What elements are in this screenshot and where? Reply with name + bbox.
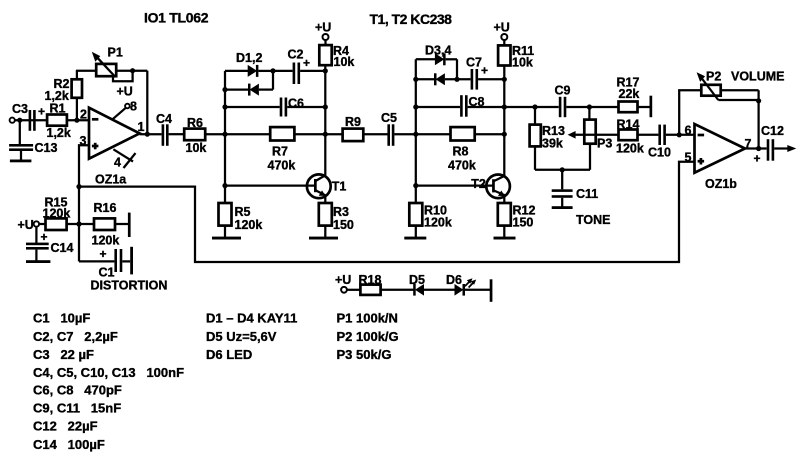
svg-text:C13: C13 (35, 141, 58, 155)
ground R3 (309, 226, 338, 240)
svg-text:+U: +U (335, 273, 351, 287)
svg-text:P3: P3 (597, 137, 612, 151)
svg-text:120k: 120k (424, 215, 452, 229)
svg-text:OZ1a: OZ1a (95, 173, 127, 187)
diode D4 (416, 73, 471, 85)
wire bias junction to C1 (79, 260, 114, 262)
supply +U terminal stage2 (494, 20, 510, 40)
svg-text:DISTORTION: DISTORTION (91, 278, 168, 292)
wire R13 bottom to P3 bottom (535, 169, 590, 171)
resistor R7 470k (225, 127, 325, 172)
stage 1 collector vertical wire (324, 65, 326, 175)
svg-text:2: 2 (80, 108, 87, 122)
svg-text:R3: R3 (333, 205, 349, 219)
wire bias down to R15/R16 junction (78, 187, 80, 262)
svg-text:R8: R8 (453, 145, 469, 159)
svg-text:C1 10µF: C1 10µF (33, 310, 90, 325)
node base1 diode row (222, 87, 227, 92)
svg-text:T2: T2 (471, 177, 486, 191)
svg-text:+U: +U (494, 20, 510, 34)
wire collector2 to C9 row (504, 106, 558, 108)
svg-text:120k: 120k (235, 218, 263, 232)
potentiometer P3 (568, 107, 619, 170)
svg-text:P3 50k/G: P3 50k/G (337, 347, 392, 362)
output arrow (787, 145, 796, 152)
svg-text:C8: C8 (469, 95, 485, 109)
capacitor C10 (648, 125, 671, 160)
svg-text:470k: 470k (448, 159, 476, 173)
svg-text:+: + (100, 247, 107, 261)
wire R18 to D5 (381, 289, 415, 291)
svg-text:C14: C14 (51, 241, 74, 255)
svg-text:R7: R7 (272, 144, 288, 158)
resistor R5 120k (219, 203, 263, 232)
node collector1 main row (323, 132, 328, 137)
capacitor C2 (288, 47, 311, 84)
svg-text:C4: C4 (156, 112, 172, 126)
svg-text:4: 4 (114, 155, 121, 169)
wire diode corner stage1 (272, 71, 274, 90)
capacitor C3 (12, 102, 45, 131)
svg-text:R9: R9 (345, 115, 361, 129)
terminal bar LED row (490, 279, 493, 302)
resistor R12 150 (498, 203, 536, 229)
svg-text:1,2k: 1,2k (45, 89, 69, 103)
stage 2 collector vertical wire (503, 66, 505, 176)
wire pin 3 to bias node (79, 145, 90, 186)
svg-text:C3 22 µF: C3 22 µF (33, 347, 94, 362)
stage 2 base vertical wire (415, 59, 417, 203)
svg-text:10k: 10k (512, 56, 533, 70)
svg-text:C14 100µF: C14 100µF (33, 437, 105, 452)
svg-text:C3: C3 (12, 102, 28, 116)
svg-text:+: + (481, 64, 488, 78)
terminal bar after R16 (128, 213, 131, 237)
resistor R9 (325, 115, 387, 141)
wire C4 to R6 (169, 133, 185, 135)
svg-text:R14: R14 (617, 117, 640, 131)
component list capacitors (33, 310, 184, 452)
svg-text:C4, C5, C10, C13 100nF: C4, C5, C10, C13 100nF (33, 365, 184, 380)
ground R5 (212, 226, 241, 240)
wire +U to R18 (347, 289, 360, 291)
node input junction (17, 118, 22, 123)
node collector2 C7 row (502, 77, 507, 82)
svg-text:D5: D5 (409, 273, 425, 287)
node base2 transistor row (413, 183, 418, 188)
svg-text:C6: C6 (288, 96, 304, 110)
svg-text:C7: C7 (466, 56, 482, 70)
svg-text:39k: 39k (542, 136, 563, 150)
resistor R18 (359, 273, 382, 295)
wire pin 7 to C12 (745, 147, 767, 149)
svg-text:+U: +U (18, 218, 34, 232)
svg-text:+U: +U (315, 20, 331, 34)
wire D6 to terminal bar (465, 289, 490, 291)
component list diodes (206, 310, 297, 362)
node collector2 C8 row (502, 104, 507, 109)
node base1 transistor row (222, 183, 227, 188)
wire P2 down to output node (757, 100, 759, 149)
wire R2 to P1 (76, 70, 96, 72)
svg-text:D1 – D4 KAY11: D1 – D4 KAY11 (206, 310, 297, 325)
input terminal (10, 118, 15, 123)
svg-text:8: 8 (130, 100, 137, 114)
resistor R8 470k (416, 127, 505, 173)
supply +U terminal left (18, 218, 40, 232)
svg-text:R16: R16 (94, 201, 117, 215)
resistor R1 1,2k (47, 102, 71, 140)
diode D2 (225, 84, 273, 96)
ground C14 (26, 260, 50, 263)
node collector1 C6 row (323, 104, 328, 109)
svg-text:TONE: TONE (576, 213, 611, 227)
resistor R14 120k (616, 117, 658, 155)
node D3/D4 join (454, 77, 459, 82)
op-amp OZ1a (80, 108, 145, 187)
transistor T2 (416, 175, 510, 199)
wire C9 to R17 (566, 106, 618, 108)
node R13 top junction (532, 104, 537, 109)
supply +U terminal stage1 (315, 20, 331, 40)
node base2 main row (413, 132, 418, 137)
svg-text:C10: C10 (648, 146, 671, 160)
svg-text:R6: R6 (187, 116, 203, 130)
node base1 C6 row (222, 104, 227, 109)
ground C13 (10, 160, 32, 163)
node OZ1a output (145, 132, 150, 137)
node pin 6 junction (677, 132, 682, 137)
wire R6 to stage1 base node (205, 133, 225, 135)
svg-text:P2 100k/G: P2 100k/G (337, 329, 399, 344)
svg-text:+: + (754, 152, 761, 166)
wire P1 feedback down to output node (146, 71, 148, 135)
node P2 wiper junction (756, 98, 761, 103)
op-amp OZ1b (685, 123, 752, 191)
svg-text:T1, T2 KC238: T1, T2 KC238 (370, 11, 453, 27)
svg-text:C6, C8 470pF: C6, C8 470pF (33, 383, 122, 398)
wire C5 to stage2 base node (394, 133, 415, 135)
svg-text:+: + (303, 56, 310, 70)
node base2 C8 row (413, 104, 418, 109)
transistor T1 (225, 174, 346, 198)
resistor R3 150 (319, 203, 354, 232)
capacitor C9 (555, 84, 571, 118)
resistor R10 120k (409, 203, 452, 229)
ground C11 (552, 206, 573, 209)
wire to C2 (273, 70, 293, 72)
node P1 wiper junction (130, 68, 135, 73)
resistor R2 1,2k (45, 71, 83, 121)
resistor R13 39k (530, 107, 565, 170)
wire T1 emitter to R3 (324, 195, 326, 203)
svg-text:R5: R5 (235, 205, 251, 219)
ground R12 (494, 226, 516, 240)
svg-text:5: 5 (685, 150, 692, 164)
svg-text:D6 LED: D6 LED (206, 347, 252, 362)
node C11 junction (560, 167, 565, 172)
capacitor C1 (99, 247, 123, 279)
svg-text:R18: R18 (359, 273, 382, 287)
svg-text:10k: 10k (334, 55, 355, 69)
svg-text:R1: R1 (50, 102, 66, 116)
svg-text:C12 22µF: C12 22µF (33, 419, 98, 434)
terminal bar after C1 (130, 247, 133, 275)
capacitor C11 (552, 170, 599, 207)
potentiometer P1 (92, 46, 148, 82)
resistor R17 22k (617, 76, 650, 113)
svg-text:+: + (38, 105, 45, 119)
node base1 main (222, 132, 227, 137)
node R1/R2 junction (74, 118, 79, 123)
capacitor C7 (466, 56, 488, 90)
diode D3 (416, 43, 457, 65)
component list potentiometers (337, 310, 399, 362)
op-amp OZ1a pin 4 (113, 149, 135, 169)
wire input to R1 (15, 119, 47, 121)
capacitor C5 (381, 111, 397, 146)
node R15/R16 junction (76, 221, 81, 226)
svg-text:D6: D6 (446, 273, 462, 287)
node P3 top junction (587, 104, 592, 109)
svg-text:6: 6 (685, 123, 692, 137)
svg-text:120k: 120k (92, 233, 120, 247)
svg-text:C5: C5 (381, 111, 397, 125)
node pin 7 output (756, 146, 761, 151)
svg-text:IO1 TL062: IO1 TL062 (144, 10, 209, 26)
svg-text:D3,4: D3,4 (425, 43, 451, 57)
svg-text:C9, C11 15nF: C9, C11 15nF (33, 401, 121, 416)
svg-text:22k: 22k (619, 87, 640, 101)
resistor R15 120k (39, 195, 79, 230)
capacitor C12 (754, 124, 784, 166)
svg-text:P1 100k/N: P1 100k/N (337, 310, 398, 325)
svg-text:D5 Uz=5,6V: D5 Uz=5,6V (206, 329, 277, 344)
svg-text:C9: C9 (555, 84, 571, 98)
svg-text:+U: +U (117, 85, 133, 99)
capacitor C14 (26, 227, 73, 261)
wire C12 to output arrow (774, 147, 789, 149)
wire C10 to pin 6 (666, 134, 695, 136)
svg-text:470k: 470k (268, 158, 296, 172)
diode D1 (225, 51, 273, 77)
stage 1 base vertical wire (224, 71, 226, 203)
capacitor C13 (9, 120, 57, 160)
wire C1 to terminal bar (122, 260, 130, 262)
svg-text:P1: P1 (108, 46, 123, 60)
svg-text:150: 150 (333, 218, 354, 232)
diode D5 zener (409, 273, 425, 296)
svg-text:P2: P2 (706, 69, 721, 83)
svg-text:C1: C1 (99, 265, 115, 279)
wire pin 6 up to P2 (679, 90, 701, 135)
resistor R6 10k (184, 116, 206, 155)
svg-text:C2, C7 2,2µF: C2, C7 2,2µF (33, 329, 118, 344)
wire C7 to collector2 (478, 78, 504, 80)
svg-text:1: 1 (138, 120, 145, 134)
resistor R11 10k (498, 40, 534, 70)
node collector2 main row (502, 132, 507, 137)
terminal bar after R17 (650, 96, 653, 118)
svg-text:120k: 120k (43, 206, 71, 220)
LED D6 (446, 273, 476, 296)
ground R10 (404, 226, 426, 240)
node collector1 C2 row (323, 68, 328, 73)
svg-text:1,2k: 1,2k (47, 126, 71, 140)
svg-text:10k: 10k (186, 141, 207, 155)
capacitor C4 (156, 112, 172, 146)
svg-text:C2: C2 (288, 47, 304, 61)
wire T2 emitter to R12 (503, 195, 505, 203)
potentiometer P2 (697, 69, 785, 100)
svg-text:D1,2: D1,2 (236, 51, 262, 65)
wire D5 to D6 (424, 289, 455, 291)
wire output to C4 (140, 133, 162, 135)
wire bias rail to OZ1b pin 5 (79, 162, 695, 262)
supply +U terminal LED row (335, 273, 351, 293)
node bias junction (76, 184, 81, 189)
capacitor C8 (416, 95, 505, 117)
svg-text:+: + (41, 230, 48, 244)
svg-text:C12: C12 (761, 124, 784, 138)
wire diode corner stage2 (456, 59, 458, 79)
op-amp OZ1a pin 8 (113, 85, 138, 120)
svg-text:T1: T1 (332, 180, 347, 194)
svg-text:150: 150 (513, 215, 534, 229)
svg-text:OZ1b: OZ1b (705, 177, 737, 191)
node D1/D2 join (270, 68, 275, 73)
svg-text:VOLUME: VOLUME (731, 69, 784, 83)
svg-text:120k: 120k (616, 142, 644, 156)
node base2 diode row (413, 77, 418, 82)
wire C2 to collector1 (300, 70, 325, 72)
capacitor C6 (225, 96, 325, 116)
resistor R4 10k (319, 40, 354, 69)
wire R1 to op-amp pin 2 (67, 119, 90, 121)
resistor R16 120k (79, 201, 128, 247)
svg-text:C11: C11 (576, 187, 598, 201)
